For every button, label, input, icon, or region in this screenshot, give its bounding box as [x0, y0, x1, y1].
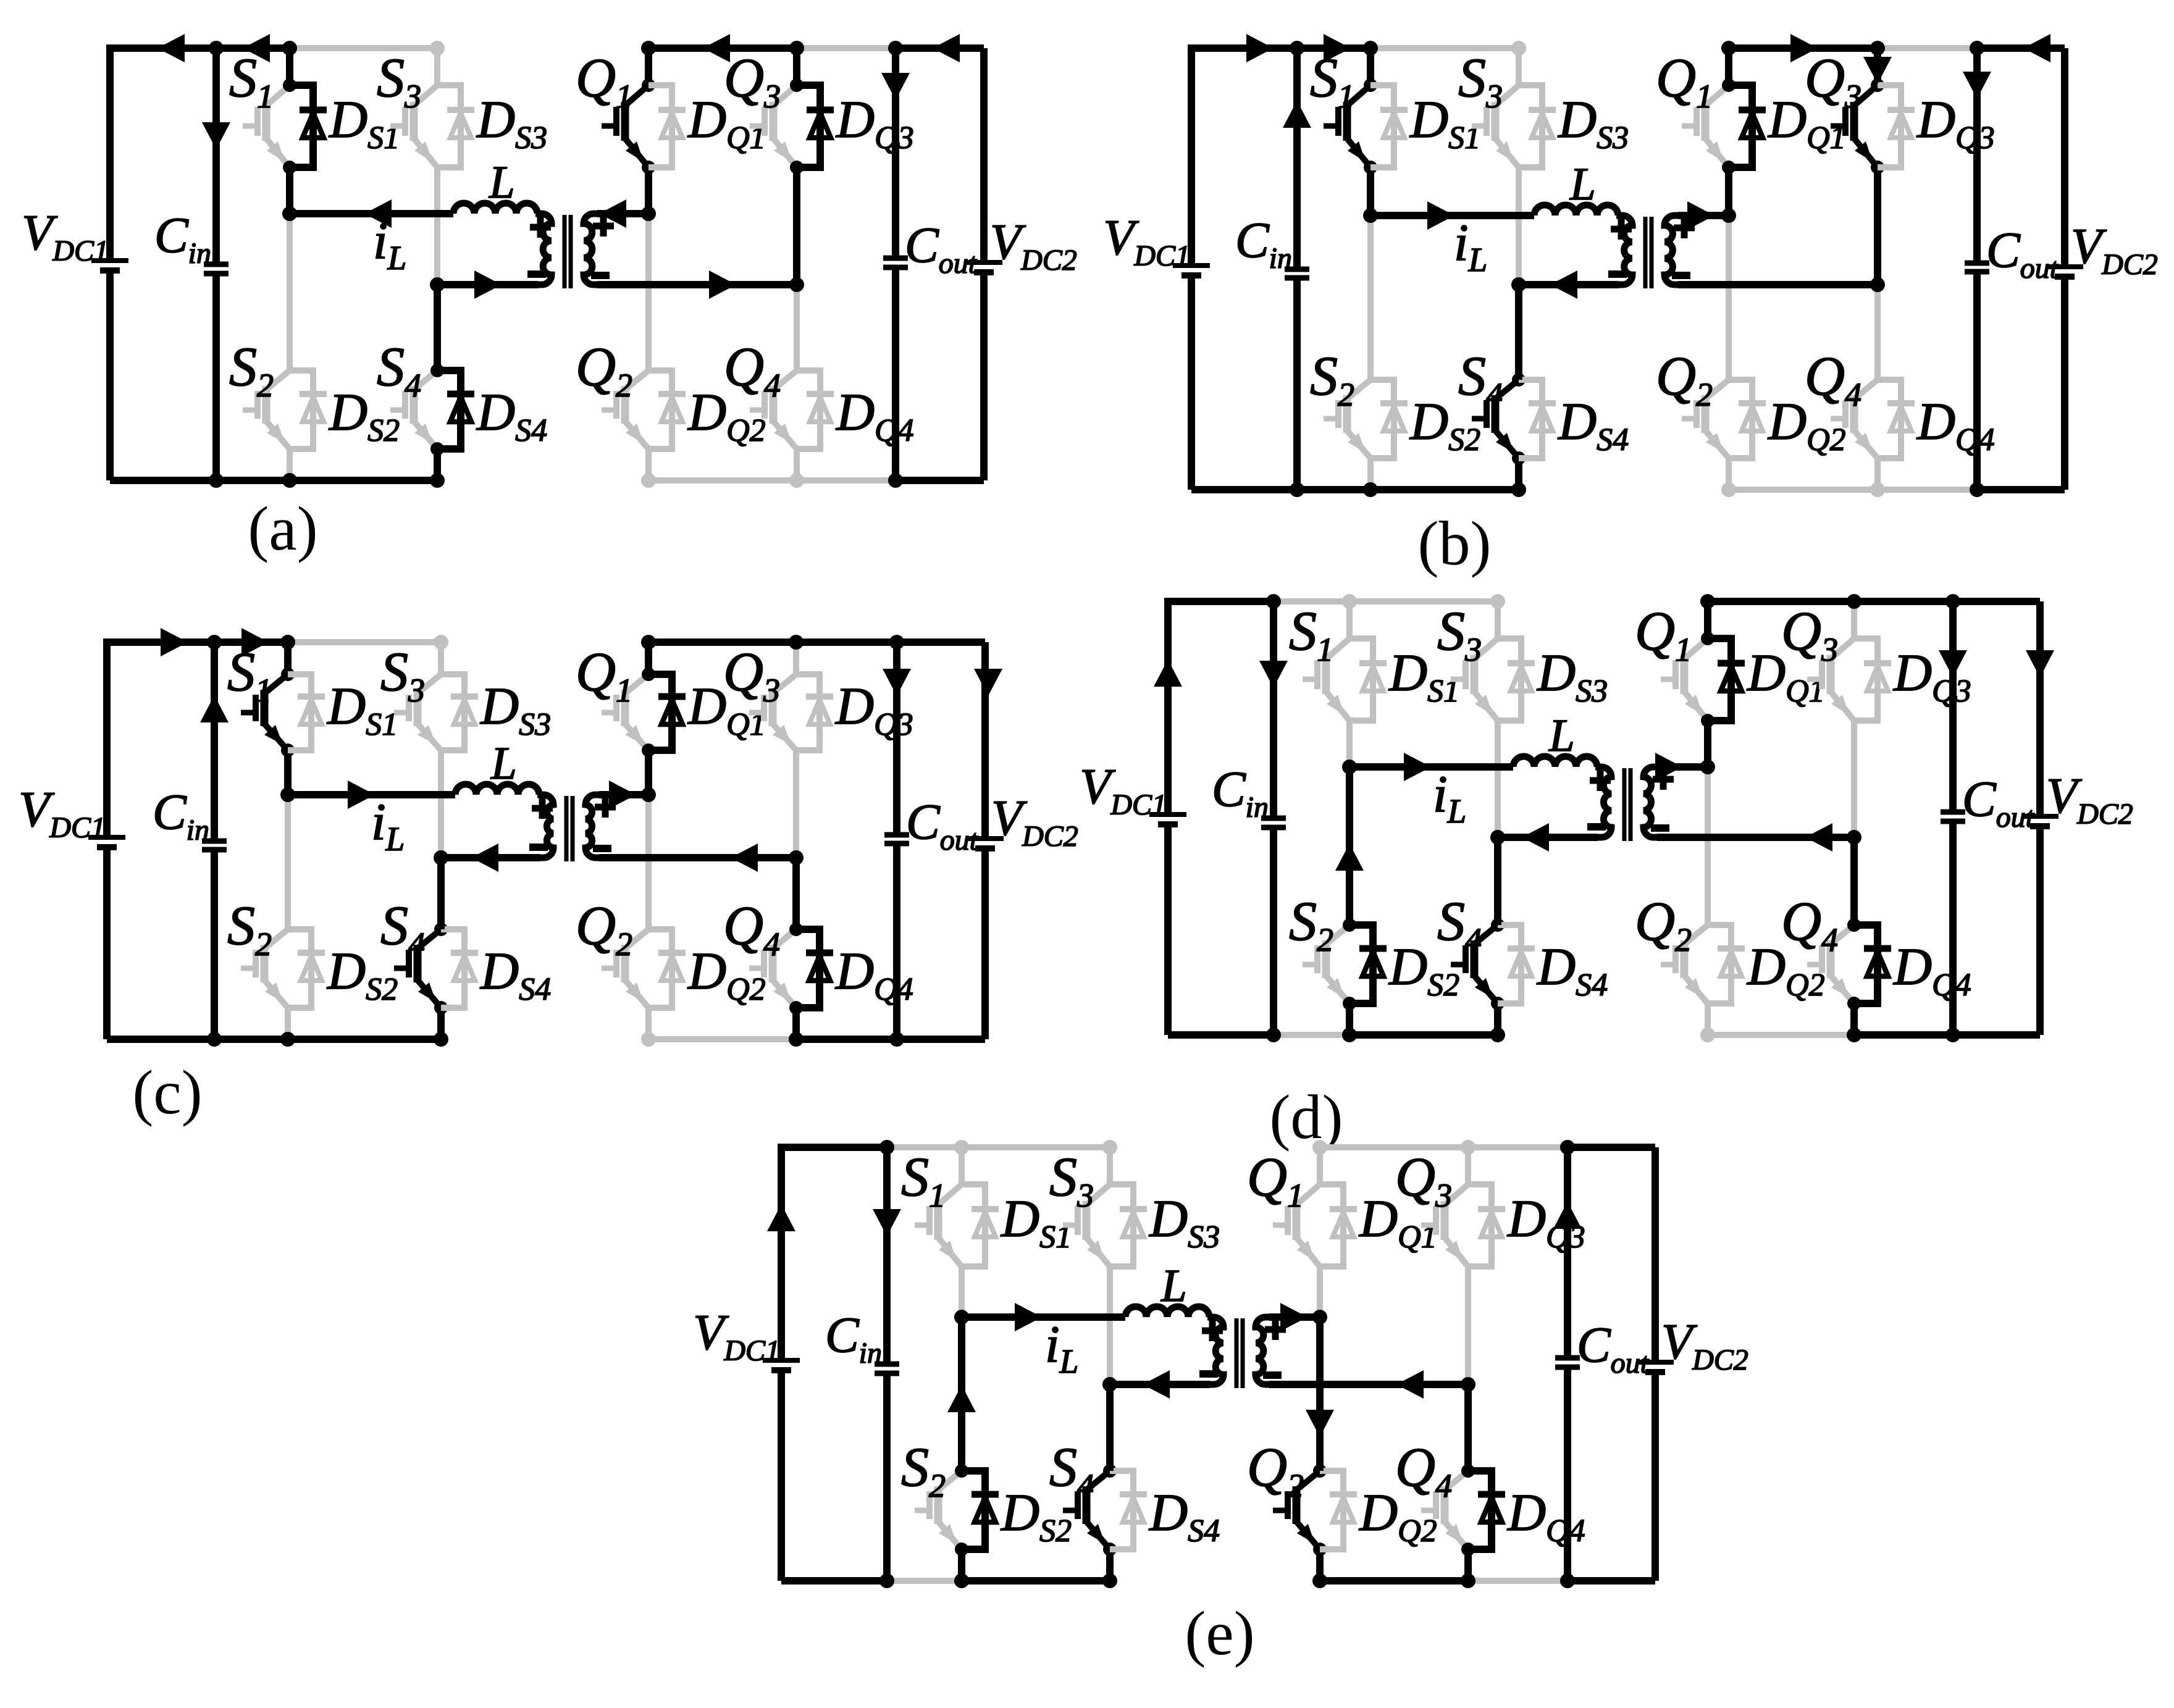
- (c) transistor S1 (active IGBT switch): [284, 642, 292, 674]
- (e) current direction arrow: [1306, 1410, 1334, 1437]
- (d) diode D4 (antiparallel): [1498, 925, 1521, 1003]
- (a) current direction arrow: [709, 270, 736, 299]
- (b) current direction arrow: [2023, 34, 2050, 62]
- (a) wire: inductor branch (node A to transformer): [290, 210, 453, 217]
- (b) DC source V_DC1 battery symbol: [1173, 263, 1210, 268]
- (d) diode D3 (antiparallel): [1498, 638, 1521, 721]
- (b) diode D3 (antiparallel): [1878, 85, 1901, 167]
- (d) transistor S4 (active IGBT switch): [1494, 837, 1501, 925]
- (c) node C (Q1/Q2 midpoint): [641, 787, 656, 802]
- (c) wire: inductor branch (node A to transformer): [288, 791, 455, 798]
- (d) node C (Q1/Q2 midpoint): [1700, 760, 1715, 774]
- (b) transistor Q2 (IGBT switch): [1726, 216, 1732, 380]
- (c) node D (Q3/Q4 midpoint): [789, 850, 804, 865]
- (e) transistor Q4 (IGBT switch): [1464, 1384, 1472, 1471]
- (a) current direction arrow: [202, 122, 230, 149]
- (a) transformer polarity marks + -: [530, 224, 551, 231]
- (b) current direction arrow: [1427, 201, 1454, 230]
- (e) wire: Q4 leg (active): [1464, 1384, 1472, 1471]
- (e) inductor L: [1125, 1307, 1209, 1317]
- (b) wire: lower link (node B to transformer): [1519, 281, 1619, 288]
- (c) wire: upper right link (transformer to Q1/Q2 node): [599, 791, 648, 798]
- (b) current direction arrow: [1246, 34, 1274, 62]
- (a) wire: top bus (active segment): [110, 44, 290, 52]
- (a) transformer core: [563, 215, 567, 288]
- (b) wire: lower right link (transformer to Q3/Q4 node): [1678, 281, 1878, 288]
- (a) capacitor C_in symbol: [204, 262, 229, 267]
- (d) transistor S2 (IGBT switch): [1346, 767, 1353, 925]
- (c) transformer core: [564, 796, 569, 861]
- (d) wire: inductor branch (node A to transformer): [1349, 763, 1513, 771]
- (c) current direction arrow: [200, 695, 229, 722]
- (a) wire: Q4 leg (inactive): [794, 285, 800, 370]
- (e) wire: Q3 leg to midpoint node: [1465, 1266, 1471, 1384]
- (d) diode D3 (antiparallel): [1854, 638, 1878, 721]
- (b) transistor S4 (active IGBT switch): [1515, 285, 1522, 380]
- (a) transistor Q2 (IGBT switch): [645, 214, 652, 370]
- (d) current direction arrow: [1522, 823, 1549, 852]
- (c) wire: bottom bus right (active segment): [796, 1036, 985, 1043]
- (b) wire: top bus right (active segment): [1729, 44, 1878, 52]
- (e) wire: lower right link (transformer to Q3/Q4 node): [1269, 1381, 1468, 1388]
- svg-text:L: L: [1160, 1260, 1187, 1312]
- (b) wire: S2 leg (inactive): [1367, 216, 1374, 380]
- (b) current direction arrow: [1283, 101, 1311, 128]
- (e) current direction arrow: [947, 1385, 976, 1412]
- (e) current direction arrow: [1396, 1370, 1424, 1399]
- (c) wire: S2 leg (inactive): [285, 795, 291, 929]
- (b) wire: left rail V_DC1: [1191, 48, 1370, 266]
- (b) wire: Q2 leg (inactive): [1726, 216, 1732, 380]
- (a) diode D2 (antiparallel): [648, 370, 672, 449]
- (a) wire: S3 leg to midpoint node: [434, 167, 440, 285]
- (e) diode D1 (antiparallel): [1320, 1184, 1343, 1266]
- (e) diode D1 (antiparallel): [962, 1184, 985, 1266]
- (c) wire: C_out rail: [893, 642, 900, 835]
- (e) wire: bottom bus right (active segment): [1320, 1577, 1468, 1585]
- (b) transistor Q1 (IGBT switch): [1725, 48, 1732, 85]
- (d) node D (Q3/Q4 midpoint): [1847, 830, 1861, 845]
- (a) transistor Q1 (active IGBT switch): [645, 48, 652, 85]
- (e) transistor Q1 (IGBT switch): [1317, 1147, 1323, 1184]
- (d) current direction arrow: [1154, 659, 1182, 687]
- (e) diode D2 (antiparallel): [962, 1471, 985, 1549]
- (a) transformer (coupled windings): [535, 214, 552, 285]
- (d) DC source V_DC2 battery symbol: [2021, 814, 2059, 819]
- (d) current direction arrow: [1805, 823, 1832, 852]
- (b) diode D2 (antiparallel): [1370, 380, 1394, 458]
- (b) current direction arrow: [1324, 34, 1351, 62]
- (d) node B (S3/S4 midpoint): [1490, 830, 1505, 845]
- (b) transformer (coupled windings): [1616, 216, 1632, 285]
- (d) diode D1 (antiparallel): [1708, 638, 1731, 721]
- (d) diode D1 (antiparallel): [1349, 638, 1373, 721]
- (d) node A (S1/S2 midpoint): [1342, 760, 1357, 774]
- (e) transformer (coupled windings): [1207, 1317, 1223, 1384]
- (e) DC source V_DC2 battery symbol: [1637, 1360, 1674, 1365]
- (c) wire: C_in rail: [211, 642, 218, 841]
- (a) diode D2 (antiparallel): [290, 370, 313, 449]
- (a) bus junction dots: [209, 41, 224, 56]
- (d) current direction arrow: [1259, 661, 1288, 688]
- (b) transistor S2 (IGBT switch): [1367, 216, 1374, 380]
- (e) wire: top bus right (inactive segment): [1312, 1140, 1327, 1155]
- (b) wire: bottom bus right (active segment): [1977, 486, 2065, 493]
- (a) wire: top bus right (active segment): [896, 44, 984, 52]
- (e) wire: upper right link (transformer to Q1/Q2 node): [1269, 1313, 1320, 1321]
- svg-text:(d): (d): [1270, 1082, 1343, 1152]
- (a) transistor S4 (IGBT switch): [434, 285, 441, 370]
- (d) wire: lower right link (transformer to Q3/Q4 node): [1657, 834, 1854, 841]
- (a) current direction arrow: [703, 34, 730, 62]
- (b) wire: right rail V_DC2: [2061, 48, 2068, 267]
- (b) wire: bottom bus (active segment): [1191, 486, 1519, 493]
- (e) wire: left rail V_DC1: [781, 1147, 887, 1360]
- (a) wire: Q2 leg (inactive): [645, 214, 652, 370]
- (a) wire: right rail V_DC2: [980, 48, 988, 262]
- (c) wire: bottom bus right (inactive segment): [648, 1036, 796, 1042]
- (b) wire: bottom bus right (inactive segment): [1729, 487, 1977, 493]
- (c) DC source V_DC1 battery symbol: [88, 835, 125, 840]
- (c) transistor Q1 (IGBT switch): [645, 642, 652, 674]
- (c) capacitor C_out symbol: [884, 832, 909, 838]
- (a) wire: top bus right (active segment): [648, 44, 797, 52]
- (c) current direction arrow: [731, 844, 758, 872]
- (d) current direction arrow: [1939, 650, 1967, 677]
- (b) capacitor C_out symbol: [1965, 261, 1989, 266]
- (c) node B (S3/S4 midpoint): [434, 850, 448, 865]
- (a) wire: C_out rail: [892, 48, 899, 258]
- (e) current direction arrow: [873, 1209, 901, 1236]
- (a) wire: lower link (node B to transformer): [437, 281, 538, 288]
- (d) wire: top bus (inactive segment): [1274, 598, 1498, 605]
- (c) diode D1 (antiparallel): [648, 674, 672, 750]
- (e) wire: bottom bus right (inactive segment): [1468, 1578, 1568, 1584]
- (e) current direction arrow: [1015, 1303, 1042, 1331]
- (c) wire: lower right link (transformer to Q3/Q4 node): [599, 854, 796, 861]
- (a) DC source V_DC2 battery symbol: [965, 260, 1002, 265]
- (a) wire: S4 leg (active): [434, 285, 441, 370]
- (b) diode D4 (antiparallel): [1878, 380, 1901, 458]
- (b) wire: Q3 leg to midpoint node: [1874, 167, 1881, 285]
- (a) diode D4 (antiparallel): [797, 370, 820, 449]
- (d) transistor Q3 (IGBT switch): [1851, 601, 1857, 638]
- (a) wire: S2 leg (inactive): [287, 214, 293, 370]
- (b) wire: upper right link (transformer to Q1/Q2 node): [1678, 212, 1729, 219]
- (b) current direction arrow: [1963, 72, 1991, 99]
- (b) wire: top bus (inactive segment): [1370, 45, 1519, 51]
- (d) diode D4 (antiparallel): [1854, 925, 1878, 1003]
- (d) wire: left rail V_DC1: [1168, 601, 1274, 814]
- (e) wire: S2 leg (active): [958, 1317, 965, 1471]
- (a) diode D3 (antiparallel): [437, 85, 461, 167]
- (c) transistor S2 (IGBT switch): [285, 795, 291, 929]
- (e) transistor Q2 (active IGBT switch): [1316, 1317, 1324, 1471]
- (c) wire: S4 leg (active): [437, 858, 445, 929]
- (e) capacitor C_out symbol: [1555, 1355, 1580, 1361]
- (d) wire: right rail V_DC2: [2036, 601, 2044, 816]
- (c) transformer (coupled windings): [537, 795, 553, 858]
- (a) current direction arrow: [243, 34, 270, 62]
- (a) diode D4 (antiparallel): [437, 370, 461, 449]
- (c) wire: Q2 leg (inactive): [645, 795, 652, 929]
- (b) inductor L: [1534, 205, 1618, 216]
- (b) wire: C_out rail: [1973, 48, 1981, 263]
- (e) wire: S4 leg (active): [1106, 1384, 1114, 1471]
- (d) wire: upper right link (transformer to Q1/Q2 node): [1657, 763, 1708, 771]
- (e) transformer core: [1235, 1318, 1239, 1388]
- (c) current direction arrow: [241, 628, 269, 656]
- (a) transistor S1 (IGBT switch): [286, 48, 293, 85]
- (e) wire: right rail V_DC2: [1651, 1147, 1659, 1362]
- (e) wire: lower link (node B to transformer): [1110, 1381, 1210, 1388]
- (b) current direction arrow: [1550, 270, 1577, 299]
- (e) node B (S3/S4 midpoint): [1102, 1377, 1117, 1392]
- (d) transformer polarity marks + -: [1590, 777, 1611, 784]
- (a) node A (S1/S2 midpoint): [282, 206, 297, 221]
- (b) current direction arrow: [1687, 201, 1714, 230]
- (e) wire: C_in rail: [883, 1147, 891, 1364]
- (d) wire: Q3 leg to midpoint node: [1851, 721, 1857, 837]
- (c) bus junction dots: [207, 635, 222, 650]
- (e) wire: bottom bus (inactive segment): [887, 1578, 962, 1584]
- (d) bus junction dots: [1266, 594, 1281, 609]
- (a) current direction arrow: [933, 34, 960, 62]
- (a) inductor L: [453, 203, 537, 214]
- (d) inductor L: [1513, 756, 1597, 767]
- (c) current direction arrow: [348, 781, 375, 809]
- (b) wire: S4 leg (active): [1515, 285, 1522, 380]
- (c) diode D4 (antiparallel): [796, 929, 820, 1008]
- (c) wire: lower link (node B to transformer): [441, 854, 540, 861]
- (e) diode D2 (antiparallel): [1320, 1471, 1343, 1549]
- (a) DC source V_DC1 battery symbol: [91, 258, 128, 263]
- (a) transistor S3 (IGBT switch): [434, 48, 440, 85]
- (c) wire: top bus (active segment): [107, 638, 288, 646]
- (d) diode D2 (antiparallel): [1708, 925, 1731, 1003]
- (a) node B (S3/S4 midpoint): [430, 277, 445, 292]
- (d) wire: Q2 leg (inactive): [1705, 767, 1711, 925]
- (e) wire: inductor branch (node A to transformer): [962, 1313, 1125, 1321]
- (e) bus junction dots: [879, 1140, 894, 1155]
- (b) wire: top bus (active segment): [1191, 44, 1370, 52]
- svg-text:L: L: [1569, 159, 1596, 210]
- (e) wire: bottom bus right (active segment): [1568, 1577, 1655, 1585]
- (a) wire: lower right link (transformer to Q3/Q4 node): [597, 281, 797, 288]
- (e) transistor S4 (active IGBT switch): [1106, 1384, 1114, 1471]
- (a) node D (Q3/Q4 midpoint): [789, 277, 804, 292]
- (e) transistor S3 (IGBT switch): [1107, 1147, 1113, 1184]
- (d) current direction arrow: [1655, 753, 1682, 781]
- (e) node C (Q1/Q2 midpoint): [1312, 1310, 1327, 1325]
- (c) transistor Q3 (IGBT switch): [793, 642, 799, 674]
- (a) diode D3 (antiparallel): [797, 85, 820, 167]
- (e) wire: S3 leg to midpoint node: [1107, 1266, 1113, 1384]
- (a) wire: bottom bus (active segment): [110, 477, 437, 484]
- (c) current direction arrow: [974, 669, 1002, 696]
- (c) inductor L: [455, 784, 539, 795]
- (c) wire: bottom bus (active segment): [107, 1036, 441, 1043]
- (c) DC source V_DC2 battery symbol: [967, 836, 1004, 841]
- (d) current direction arrow: [1335, 844, 1364, 871]
- svg-text:(c): (c): [132, 1058, 202, 1128]
- (c) wire: S3 leg to midpoint node: [438, 750, 444, 858]
- (a) current direction arrow: [881, 73, 910, 100]
- (e) current direction arrow: [1143, 1370, 1170, 1399]
- (c) diode D4 (antiparallel): [441, 929, 464, 1008]
- (a) wire: top bus right (inactive segment): [797, 45, 896, 51]
- (a) wire: Q3 leg to midpoint node: [793, 167, 800, 285]
- (a) transistor Q4 (IGBT switch): [794, 285, 800, 370]
- (b) transistor Q3 (active IGBT switch): [1874, 48, 1881, 85]
- (d) wire: C_in rail: [1270, 601, 1277, 818]
- (c) wire: Q4 leg (active): [792, 858, 800, 929]
- (a) current direction arrow: [157, 34, 185, 62]
- (d) transistor S1 (IGBT switch): [1346, 601, 1353, 638]
- (e) wire: top bus right (active segment): [1568, 1144, 1655, 1151]
- (c) wire: top bus right (active segment): [648, 638, 985, 646]
- (d) wire: lower link (node B to transformer): [1498, 834, 1598, 841]
- (c) current direction arrow: [161, 628, 188, 656]
- (d) current direction arrow: [2026, 650, 2054, 677]
- (e) node A (S1/S2 midpoint): [954, 1310, 969, 1325]
- (d) wire: S2 leg (active): [1346, 767, 1353, 925]
- (d) capacitor C_in symbol: [1261, 816, 1286, 821]
- (a) transistor Q3 (IGBT switch): [793, 48, 800, 85]
- (e) DC source V_DC1 battery symbol: [763, 1358, 800, 1363]
- (c) wire: Q3 leg to midpoint node: [793, 750, 799, 858]
- (b) diode D4 (antiparallel): [1519, 380, 1542, 458]
- (c) transformer polarity marks + -: [532, 805, 553, 812]
- (c) transistor Q4 (IGBT switch): [792, 858, 800, 929]
- (a) wire: upper right link (transformer to Q1/Q2 node): [597, 210, 648, 217]
- (e) wire: top bus (active segment): [781, 1144, 887, 1151]
- (a) wire: bottom bus right (inactive segment): [648, 477, 896, 484]
- (c) diode D3 (antiparallel): [441, 674, 464, 750]
- (e) capacitor C_in symbol: [875, 1362, 899, 1367]
- svg-text:L: L: [1548, 710, 1575, 761]
- (d) transistor Q1 (IGBT switch): [1704, 601, 1711, 638]
- (c) current direction arrow: [883, 669, 911, 696]
- (e) diode D4 (antiparallel): [1110, 1471, 1133, 1549]
- (e) diode D4 (antiparallel): [1468, 1471, 1492, 1549]
- (d) wire: S4 leg (active): [1494, 837, 1501, 925]
- svg-text:(e): (e): [1185, 1599, 1254, 1668]
- (b) transistor S3 (IGBT switch): [1516, 48, 1522, 85]
- (b) node C (Q1/Q2 midpoint): [1721, 208, 1736, 223]
- (d) transformer (coupled windings): [1595, 767, 1611, 837]
- (e) transistor S2 (IGBT switch): [958, 1317, 965, 1471]
- (b) wire: top bus right (active segment): [1977, 44, 2065, 52]
- (d) wire: S3 leg to midpoint node: [1495, 721, 1501, 837]
- (a) transistor S2 (IGBT switch): [287, 214, 293, 370]
- (d) wire: bottom bus right (active segment): [1854, 1031, 2040, 1039]
- (d) wire: top bus (active segment): [1168, 598, 1274, 605]
- svg-text:(a): (a): [248, 494, 317, 564]
- (a) current direction arrow: [599, 199, 626, 228]
- (c) wire: top bus (inactive segment): [288, 639, 441, 645]
- (a) diode D1 (antiparallel): [648, 85, 672, 167]
- (c) diode D2 (antiparallel): [288, 929, 311, 1008]
- (d) transistor S3 (IGBT switch): [1495, 601, 1501, 638]
- (d) wire: top bus right (active segment): [1708, 598, 2040, 605]
- (a) node C (Q1/Q2 midpoint): [641, 206, 656, 221]
- (d) DC source V_DC1 battery symbol: [1149, 812, 1186, 817]
- (a) wire: C_in rail: [212, 48, 220, 264]
- (c) transistor S3 (IGBT switch): [438, 642, 444, 674]
- (c) diode D1 (antiparallel): [288, 674, 311, 750]
- svg-text:(b): (b): [1418, 509, 1492, 579]
- (b) diode D1 (antiparallel): [1729, 85, 1752, 167]
- (e) transistor Q3 (IGBT switch): [1465, 1147, 1471, 1184]
- (e) wire: top bus (inactive segment): [887, 1144, 1110, 1150]
- (b) wire: C_in rail: [1293, 48, 1301, 269]
- (a) wire: bottom bus right (active segment): [896, 477, 984, 484]
- (a) current direction arrow: [364, 199, 392, 228]
- (d) capacitor C_out symbol: [1941, 810, 1965, 815]
- (b) bus junction dots: [1290, 41, 1304, 56]
- (b) diode D1 (antiparallel): [1370, 85, 1394, 167]
- (b) current direction arrow: [1863, 57, 1892, 84]
- (e) transformer polarity marks + -: [1202, 1328, 1223, 1334]
- (b) diode D3 (antiparallel): [1519, 85, 1542, 167]
- (b) node B (S3/S4 midpoint): [1511, 277, 1526, 292]
- (c) capacitor C_in symbol: [202, 839, 227, 844]
- (c) current direction arrow: [471, 844, 498, 872]
- (c) node A (S1/S2 midpoint): [280, 787, 295, 802]
- (d) wire: C_out rail: [1949, 601, 1957, 812]
- (a) wire: top bus (inactive segment): [290, 45, 437, 51]
- (e) node D (Q3/Q4 midpoint): [1461, 1377, 1475, 1392]
- (e) wire: bottom bus (active segment): [962, 1577, 1110, 1585]
- (c) transistor S4 (active IGBT switch): [437, 858, 445, 929]
- (d) diode D2 (antiparallel): [1349, 925, 1373, 1003]
- (e) transistor S1 (IGBT switch): [959, 1147, 965, 1184]
- (d) wire: bottom bus (inactive segment): [1274, 1032, 1349, 1038]
- (b) DC source V_DC2 battery symbol: [2046, 264, 2083, 269]
- (b) transistor Q4 (IGBT switch): [1874, 285, 1881, 380]
- (c) wire: left rail V_DC1: [107, 642, 288, 837]
- (e) current direction arrow: [1280, 1303, 1307, 1331]
- (e) wire: bottom bus (active segment): [781, 1577, 887, 1585]
- (a) capacitor C_out symbol: [883, 256, 908, 261]
- (d) wire: bottom bus (active segment): [1168, 1031, 1274, 1039]
- (b) node A (S1/S2 midpoint): [1363, 208, 1378, 223]
- (e) diode D3 (antiparallel): [1110, 1184, 1133, 1266]
- (b) capacitor C_in symbol: [1285, 267, 1309, 272]
- (d) wire: bottom bus right (inactive segment): [1708, 1032, 1854, 1038]
- (c) wire: right rail V_DC2: [981, 642, 989, 839]
- (b) node D (Q3/Q4 midpoint): [1870, 277, 1885, 292]
- (c) diode D2 (antiparallel): [648, 929, 672, 1008]
- (d) transformer core: [1622, 768, 1627, 841]
- (d) wire: bottom bus (active segment): [1349, 1031, 1498, 1039]
- (e) diode D3 (antiparallel): [1468, 1184, 1492, 1266]
- (b) current direction arrow: [1790, 34, 1818, 62]
- (b) transistor S1 (active IGBT switch): [1367, 48, 1374, 85]
- (e) current direction arrow: [767, 1204, 795, 1231]
- (a) diode D1 (antiparallel): [290, 85, 313, 167]
- (c) transistor Q2 (IGBT switch): [645, 795, 652, 929]
- (a) wire: left rail V_DC1: [110, 48, 290, 261]
- (b) wire: Q4 leg (inactive): [1874, 285, 1881, 380]
- (b) wire: inductor branch (node A to transformer): [1370, 212, 1534, 219]
- (d) transistor Q2 (IGBT switch): [1705, 767, 1711, 925]
- (c) diode D3 (antiparallel): [796, 674, 820, 750]
- (c) current direction arrow: [609, 781, 636, 809]
- (b) diode D2 (antiparallel): [1729, 380, 1752, 458]
- (b) transformer polarity marks + -: [1611, 226, 1632, 233]
